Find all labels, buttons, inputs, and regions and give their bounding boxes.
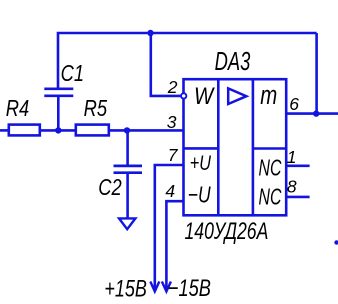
op-amp U1 DA3 outline xyxy=(184,47,287,215)
wire pin 4 to -15V rail xyxy=(166,201,183,290)
+15V label xyxy=(104,276,147,302)
ground xyxy=(119,218,135,229)
svg-text:NC: NC xyxy=(259,185,283,211)
wire junction down to C2 xyxy=(126,130,129,166)
junction node C2 top xyxy=(124,127,130,133)
pin 4 label xyxy=(165,181,175,201)
svg-text:m: m xyxy=(260,81,277,110)
pin 6 label xyxy=(289,94,299,114)
junction node output feedback xyxy=(313,110,319,116)
wire feedback down right side xyxy=(315,33,318,114)
svg-text:R4: R4 xyxy=(6,96,29,122)
pin 8 label xyxy=(287,177,297,197)
IC type label 140UD26A xyxy=(185,218,269,244)
m output cell label xyxy=(260,81,277,110)
wire pin 1 stub xyxy=(286,165,309,168)
svg-text:NC: NC xyxy=(259,156,283,182)
NC cell label upper xyxy=(259,156,283,182)
capacitor C2 xyxy=(98,166,142,201)
pin 2 label xyxy=(167,77,178,97)
wire C1 top plate up to feedback rail xyxy=(58,33,317,89)
inverting input circle pin 2 xyxy=(181,93,186,98)
-15V label xyxy=(168,275,211,302)
svg-text:4: 4 xyxy=(165,181,175,201)
stray mark right edge xyxy=(334,240,338,244)
svg-text:C1: C1 xyxy=(61,61,84,87)
wire R4 to R5 xyxy=(40,129,76,132)
wire C1 bottom plate to junction xyxy=(57,96,60,131)
capacitor C1 xyxy=(44,61,84,96)
wire pin 7 to +15V rail xyxy=(155,165,184,291)
svg-text:7: 7 xyxy=(168,145,179,165)
DA3 left field horizontal divider xyxy=(184,147,219,150)
resistor R4 xyxy=(6,96,40,135)
arrow -15V xyxy=(162,282,171,292)
svg-text:DA3: DA3 xyxy=(215,47,251,76)
resistor R5 xyxy=(76,96,109,135)
svg-text:−15В: −15В xyxy=(168,275,211,302)
-U cell label xyxy=(188,183,211,208)
pin 3 label xyxy=(167,112,177,132)
svg-text:6: 6 xyxy=(289,94,299,114)
pin 1 label xyxy=(287,147,297,167)
W input cell label xyxy=(194,83,215,110)
wire pin2 branch down and right xyxy=(151,33,181,96)
wire pin 6 output xyxy=(286,112,338,115)
svg-text:+U: +U xyxy=(190,151,212,175)
junction node C1 bottom xyxy=(55,127,61,133)
DA3 right field horizontal divider xyxy=(253,147,286,150)
svg-text:2: 2 xyxy=(167,77,178,97)
amplifier triangle symbol xyxy=(228,88,246,104)
svg-text:C2: C2 xyxy=(98,175,122,201)
DA3 right field divider xyxy=(252,79,255,215)
svg-text:R5: R5 xyxy=(84,96,108,122)
svg-text:−U: −U xyxy=(188,183,211,208)
wire R5 to pin 3 xyxy=(109,129,184,132)
wire C2 bottom to ground xyxy=(126,173,129,218)
svg-text:W: W xyxy=(194,83,215,110)
arrow +15V xyxy=(150,282,159,292)
+U cell label xyxy=(190,151,212,175)
NC cell label lower xyxy=(259,185,283,211)
wire pin 8 stub xyxy=(286,196,309,199)
pin 7 label xyxy=(168,145,179,165)
junction node feedback to pin2 branch xyxy=(147,30,153,36)
DA3 left field divider xyxy=(217,79,220,215)
svg-text:3: 3 xyxy=(167,112,177,132)
svg-text:140УД26А: 140УД26А xyxy=(185,218,269,244)
svg-text:1: 1 xyxy=(287,147,297,167)
svg-text:8: 8 xyxy=(287,177,297,197)
wire input left to R4 xyxy=(0,129,9,132)
svg-text:+15В: +15В xyxy=(104,276,147,302)
